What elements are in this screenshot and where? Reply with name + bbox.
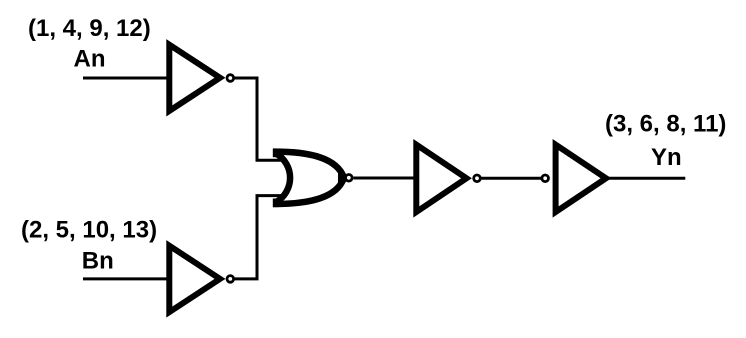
inverter U4	[416, 145, 480, 212]
svg-text:(3, 6, 8, 11): (3, 6, 8, 11)	[605, 110, 726, 137]
wire U1 output to NOR top input	[235, 78, 283, 160]
wire U4 output to U5 input bubble	[482, 177, 542, 180]
inverter U5 (bubble on input)	[542, 145, 606, 212]
svg-text:(1, 4, 9, 12): (1, 4, 9, 12)	[28, 15, 151, 42]
wire NOR output to U4	[354, 177, 418, 180]
svg-text:Yn: Yn	[651, 144, 682, 171]
wire An input	[83, 77, 168, 80]
wire U2 output to NOR bottom input	[235, 196, 283, 279]
svg-text:An: An	[74, 45, 106, 72]
wire Yn output	[609, 177, 685, 180]
inverter U2 (Bn input)	[169, 246, 233, 312]
svg-text:Bn: Bn	[82, 248, 114, 275]
NOR gate U3	[273, 149, 352, 208]
inverter U1 (An input)	[169, 45, 233, 111]
wire Bn input	[83, 277, 168, 280]
svg-text:(2, 5, 10, 13): (2, 5, 10, 13)	[21, 216, 157, 243]
